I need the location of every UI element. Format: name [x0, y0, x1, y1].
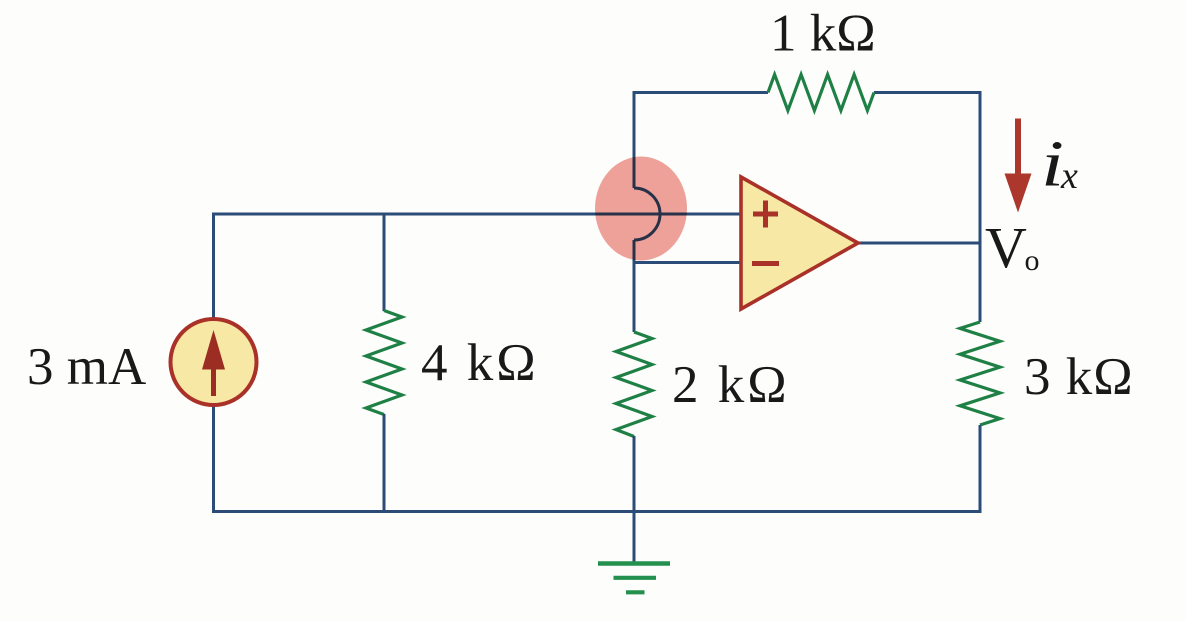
wire: left vertical upper (source node to current source top): [212, 214, 215, 320]
wire: 4k branch top lead: [383, 214, 386, 311]
resistor R 2k zigzag: [616, 332, 652, 437]
svg-text:2 kΩ: 2 kΩ: [672, 356, 790, 414]
resistor R 3k zigzag: [960, 322, 1000, 425]
wire: top feedback rail: [634, 91, 980, 94]
wire: right vertical (top rail down to 3k): [979, 91, 982, 322]
resistor R 1k zigzag: [768, 75, 874, 111]
current source I1 circle: [171, 319, 257, 405]
crossover highlight ellipse: [595, 157, 687, 261]
svg-text:x: x: [1060, 155, 1078, 197]
wire: feedback vertical above hop: [633, 91, 636, 188]
svg-text:1 kΩ: 1 kΩ: [770, 5, 876, 63]
resistor R 4k zigzag: [366, 311, 402, 415]
ground symbol: [598, 564, 670, 593]
wire: bottom rail: [212, 510, 982, 513]
wire: 2k bottom lead through bottom rail to ground: [633, 436, 636, 563]
op-amp plus sign: [753, 201, 778, 228]
current arrow i_x: [1015, 119, 1021, 176]
wire: noninverting input rail (left node to op-amp +): [212, 213, 741, 216]
svg-text:o: o: [1025, 244, 1040, 277]
wire: left vertical lower (current source bottom to bottom rail): [212, 404, 215, 512]
svg-text:3 mA: 3 mA: [27, 338, 146, 396]
op-amp minus sign: [752, 261, 779, 266]
op-amp U1 triangle: [741, 177, 858, 309]
wire: inverting input stub: [634, 261, 741, 264]
wire: 4k branch bottom lead: [383, 414, 386, 512]
svg-text:4 kΩ: 4 kΩ: [421, 334, 539, 392]
current source arrow (up): [211, 369, 216, 396]
svg-text:3 kΩ: 3 kΩ: [1024, 348, 1134, 406]
wire: right vertical below 3k: [979, 425, 982, 512]
wire: op-amp output to right rail: [856, 242, 981, 245]
wire: crossover hop arc: [634, 188, 660, 240]
wire: feedback vertical below hop to 2k resistor: [633, 240, 636, 332]
svg-text:V: V: [985, 215, 1027, 280]
